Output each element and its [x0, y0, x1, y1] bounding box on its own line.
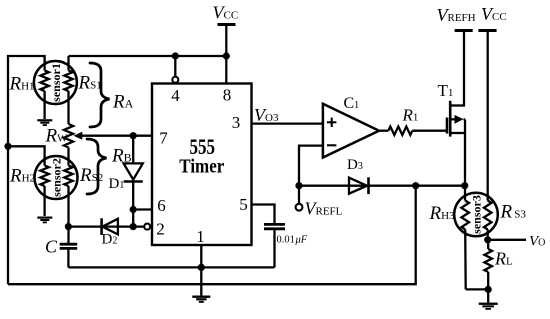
pin label 8: [223, 85, 232, 104]
svg-text:2: 2: [156, 220, 165, 239]
resistor RS2 (sense, in sensor2): [64, 159, 72, 244]
label VO: [529, 234, 545, 250]
diode D3: [299, 177, 465, 194]
junction VREFL / D3: [295, 182, 302, 189]
junction D3 row / bottom loop: [412, 182, 419, 189]
wire pin 2 row: [68, 225, 144, 227]
junction RL / ground: [485, 286, 492, 293]
terminal VREFL (open circle): [296, 204, 303, 211]
junction pin4/VCC rail: [172, 52, 179, 59]
svg-text:7: 7: [159, 129, 168, 148]
op-amp C1 (comparator): [323, 104, 379, 158]
label VREFL: [305, 199, 343, 219]
wire VCC rail to pins 4 and 8: [69, 55, 227, 57]
wire RH3 bottom to RL bottom: [466, 288, 489, 290]
ground under RL: [479, 303, 498, 310]
pin label 2: [156, 220, 165, 239]
label RA: [112, 92, 134, 113]
brace RB: [87, 139, 107, 194]
wire pin 1 lead: [200, 245, 202, 267]
label D3: [347, 157, 363, 173]
svg-text:6: 6: [157, 196, 166, 215]
pin label 5: [239, 195, 248, 214]
wire bottom outer loop: [8, 186, 416, 285]
svg-text:4: 4: [171, 86, 180, 105]
wire pin 3 to comparator: [252, 122, 323, 124]
diode D2: [102, 218, 118, 235]
svg-text:0.01: 0.01: [277, 234, 295, 245]
junction C / D2 / RS2: [65, 223, 72, 230]
wire VREFL lead: [298, 186, 300, 204]
label VO3: [254, 105, 279, 125]
pin label 1: [196, 227, 205, 246]
pin label 4: [171, 86, 180, 105]
svg-text:sensor1: sensor1: [49, 63, 63, 102]
wire pin1 to ground: [200, 267, 202, 295]
wire RH2 top feed: [8, 146, 45, 158]
ground under RH1: [37, 119, 52, 126]
wire ground bus (C to 0.01uF): [68, 266, 274, 268]
resistor RH2 (heater, in sensor2): [40, 157, 48, 216]
wire left border (supply loop): [8, 56, 45, 284]
brace RA: [90, 63, 110, 127]
label 0.01uF: [277, 234, 308, 245]
label RB: [111, 146, 132, 167]
label RS2: [79, 165, 103, 186]
label D2: [102, 232, 118, 248]
IC 555 Timer: [152, 84, 252, 246]
power VCC (right): [478, 4, 506, 198]
label T1: [438, 81, 454, 100]
resistor RH1 (heater, in sensor1): [40, 60, 48, 119]
potentiometer RW: [64, 124, 73, 160]
sensor1 enclosure: [34, 61, 77, 104]
terminal pin 4 (open circle): [172, 77, 178, 83]
resistor RL: [484, 240, 492, 290]
pin label 6: [157, 196, 166, 215]
svg-text:sensor3: sensor3: [470, 195, 484, 234]
diode D1: [124, 136, 143, 227]
ground under RH2: [37, 217, 52, 224]
sensor2 enclosure: [35, 156, 78, 199]
label RW: [45, 125, 69, 146]
junction VO / RS3 / RL: [484, 236, 491, 243]
label RH1: [9, 73, 35, 94]
wire R1 to gate: [412, 130, 447, 132]
sensor3 enclosure: [454, 193, 498, 237]
ground main: [192, 296, 210, 303]
capacitor 0.01uF (pin 5): [264, 224, 285, 267]
label C1: [344, 95, 360, 112]
junction pin1 / ground bus: [198, 264, 205, 271]
wire RL to ground: [487, 289, 489, 302]
label RH3: [429, 203, 456, 224]
junction D2 / D1 column: [130, 223, 137, 230]
resistor RH3 (heater, in sensor3): [461, 186, 469, 290]
junction pin8/VCC rail: [223, 52, 230, 59]
junction D1 / pin6 wire: [130, 206, 137, 213]
wire T1 source down: [464, 133, 466, 186]
label RH2: [9, 166, 35, 187]
pin label 7: [159, 129, 168, 148]
label RL: [494, 249, 513, 269]
wire C1 minus input: [299, 146, 323, 186]
junction D3 row / T1 source / RH3: [461, 182, 468, 189]
transistor T1 (MOSFET): [447, 101, 465, 137]
wire VO: [488, 239, 526, 241]
label RS3: [500, 202, 527, 223]
wire C1 output: [379, 130, 388, 132]
power VREFH: [437, 5, 476, 106]
label C: [45, 237, 58, 257]
resistor R1: [388, 127, 412, 135]
svg-text:5: 5: [239, 195, 248, 214]
junction left border / RH2 feed: [4, 143, 11, 150]
svg-text:μF: μF: [295, 234, 308, 245]
terminal pin 2 (open circle): [144, 224, 150, 230]
label R1: [402, 106, 419, 125]
wire pin 5 stub: [252, 205, 275, 225]
svg-text:Timer: Timer: [179, 156, 224, 178]
wiper arrow RW: [74, 132, 152, 140]
pin label 3: [232, 113, 241, 132]
wire pin 8 lead: [225, 56, 227, 84]
svg-text:C: C: [45, 237, 58, 257]
junction pin7 wire / D1: [130, 132, 137, 139]
svg-text:1: 1: [196, 227, 205, 246]
wire pin 4 lead: [174, 56, 176, 77]
svg-text:3: 3: [232, 113, 241, 132]
power VCC (top center): [213, 3, 239, 57]
label RS1: [78, 73, 102, 94]
resistor RS3 (sense, in sensor3): [484, 197, 492, 240]
resistor RS1 (sense, in sensor1): [64, 56, 72, 124]
capacitor C (timing): [60, 244, 77, 267]
svg-text:8: 8: [223, 85, 232, 104]
label D1: [109, 176, 125, 192]
wire pin 6: [133, 208, 152, 210]
